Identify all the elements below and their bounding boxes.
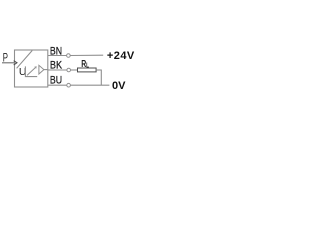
- wire BK from box: [48, 69, 67, 71]
- svg-text:BN: BN: [50, 45, 62, 57]
- terminal circle BN: [67, 54, 71, 58]
- svg-text:0V: 0V: [112, 80, 126, 92]
- terminal circle BK: [67, 68, 71, 72]
- svg-text:L: L: [86, 62, 89, 69]
- wire BU from box: [48, 84, 67, 86]
- wire corner down to 0V rail: [100, 70, 102, 86]
- U characteristic axis: [25, 66, 37, 76]
- 0V rail: [70, 84, 109, 86]
- sensor box diagonal: [17, 51, 33, 69]
- svg-text:BU: BU: [50, 75, 62, 87]
- wire BN from box: [48, 55, 67, 57]
- wire BN to +24V: [70, 54, 103, 56]
- U characteristic arrowhead: [34, 66, 36, 68]
- P input arrow wire: [2, 62, 14, 64]
- wire resistor to corner: [96, 69, 101, 71]
- amplifier triangle: [39, 65, 44, 74]
- svg-text:+24V: +24V: [107, 50, 135, 62]
- U characteristic arrow: [27, 68, 35, 76]
- P arrowhead: [14, 61, 17, 65]
- terminal circle BU: [67, 83, 71, 87]
- svg-text:BK: BK: [50, 60, 63, 72]
- sensor box U1: [15, 50, 48, 87]
- amplifier output wire: [44, 69, 48, 71]
- resistor RL: [78, 68, 97, 72]
- wire BK to resistor: [71, 69, 78, 71]
